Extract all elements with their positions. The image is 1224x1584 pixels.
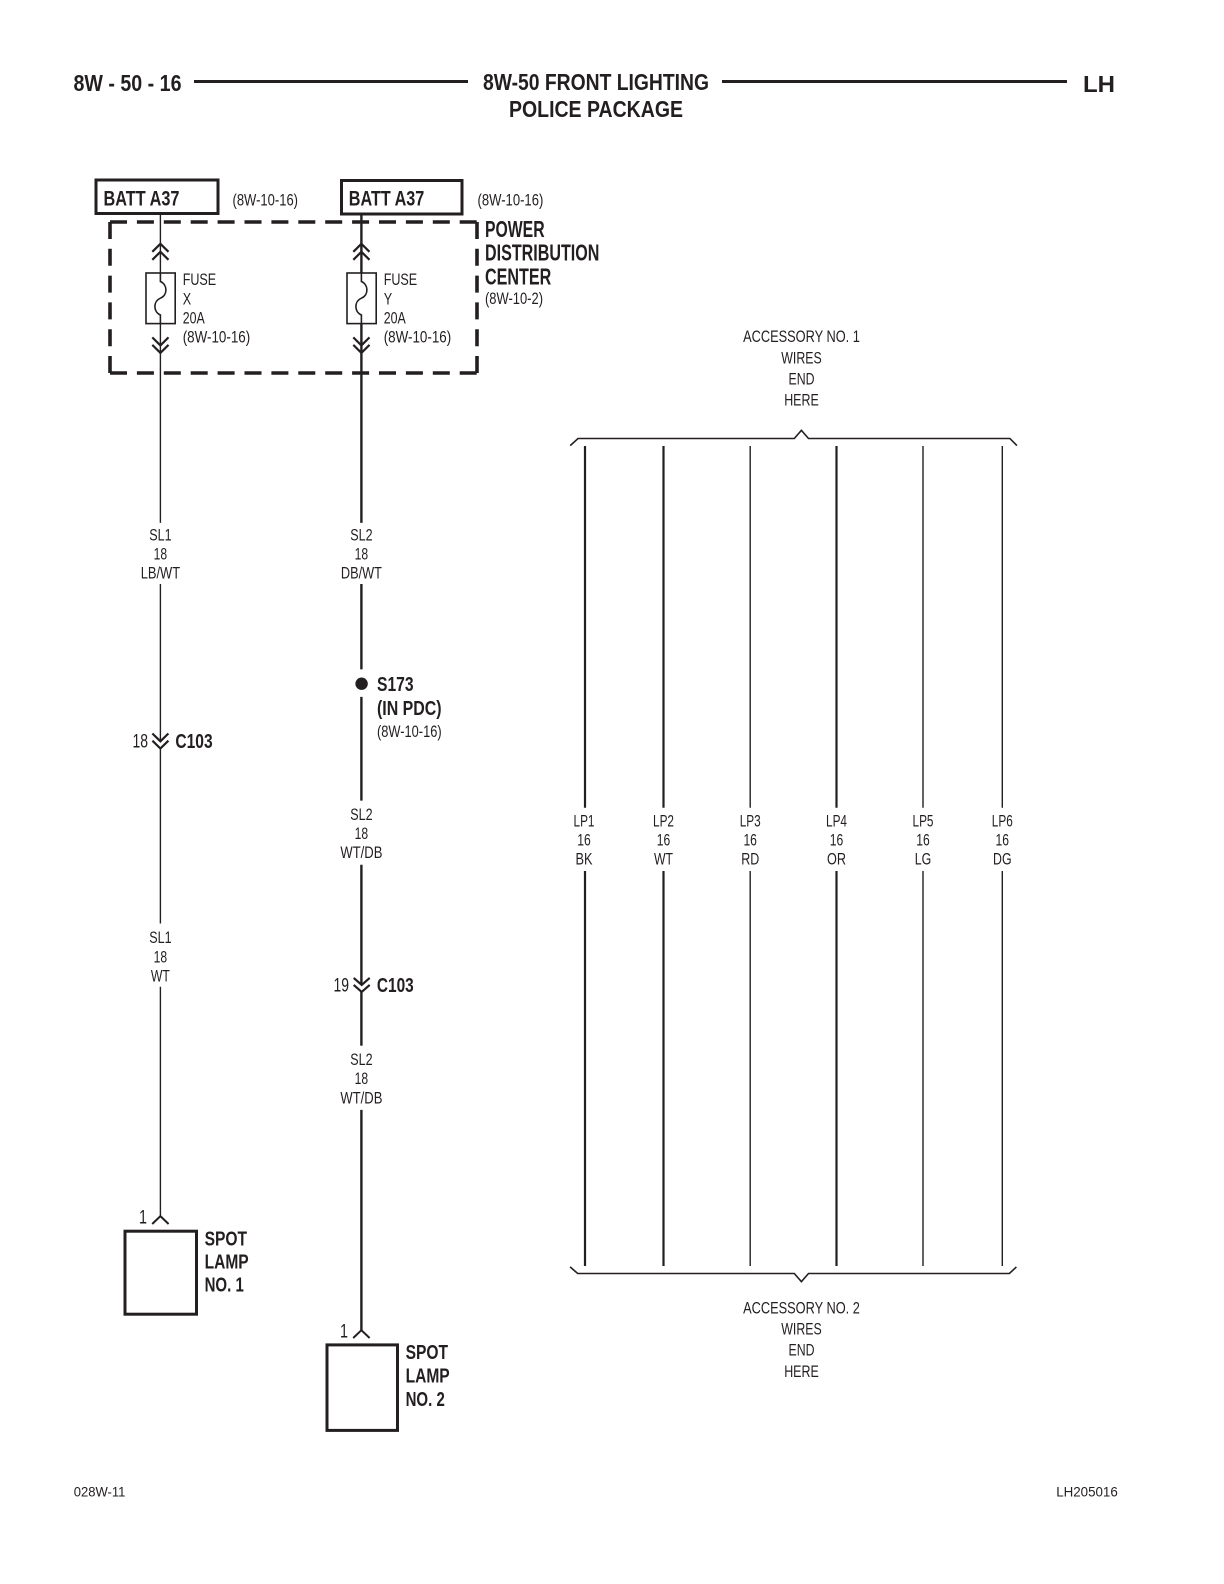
- wire label LP3 16 RD: [740, 812, 761, 869]
- svg-text:ACCESSORY NO. 2: ACCESSORY NO. 2: [743, 1298, 860, 1317]
- svg-text:WIRES: WIRES: [781, 348, 821, 367]
- svg-text:16: 16: [743, 831, 757, 850]
- component SPOT LAMP NO. 2: [327, 1342, 450, 1430]
- svg-text:16: 16: [830, 831, 844, 850]
- wire label SL2 18 WT/DB (lower): [340, 1050, 382, 1107]
- svg-text:LP6: LP6: [992, 812, 1013, 831]
- wire SL1 C103 to label gap: [159, 749, 161, 924]
- node BATT A37 (left): [96, 180, 218, 214]
- svg-text:LH205016: LH205016: [1056, 1484, 1118, 1500]
- svg-text:SL2: SL2: [350, 805, 372, 824]
- svg-text:18: 18: [154, 545, 168, 564]
- svg-text:028W-11: 028W-11: [74, 1484, 126, 1500]
- connector C103 pin 18 (in-line chevrons): [152, 734, 168, 749]
- svg-text:SL1: SL1: [149, 526, 171, 545]
- svg-text:DB/WT: DB/WT: [341, 563, 382, 582]
- svg-text:POLICE PACKAGE: POLICE PACKAGE: [509, 96, 683, 122]
- svg-text:18: 18: [355, 824, 369, 843]
- wire SL1 to spot lamp 1: [159, 987, 161, 1216]
- svg-text:CENTER: CENTER: [485, 263, 551, 289]
- wire SL2 C103 to label gap: [360, 992, 362, 1046]
- svg-text:(8W-10-16): (8W-10-16): [377, 722, 442, 741]
- header-left title: [74, 70, 182, 96]
- wire LP6: [1001, 446, 1003, 808]
- svg-text:WT: WT: [654, 849, 673, 868]
- svg-text:DG: DG: [993, 849, 1012, 868]
- wire LP2: [662, 446, 664, 808]
- fuse feed arrows (up chevrons) right: [353, 244, 369, 260]
- svg-text:18: 18: [355, 1069, 369, 1088]
- svg-text:WIRES: WIRES: [781, 1320, 821, 1339]
- header-right label LH: [1083, 71, 1115, 97]
- svg-text:HERE: HERE: [784, 391, 819, 410]
- wire LP3: [749, 446, 751, 808]
- wire LP1: [584, 446, 586, 808]
- svg-text:LB/WT: LB/WT: [141, 563, 180, 582]
- svg-text:19: 19: [334, 976, 350, 997]
- svg-text:POWER: POWER: [485, 216, 545, 242]
- svg-text:WT/DB: WT/DB: [340, 1088, 382, 1107]
- svg-text:18: 18: [154, 947, 168, 966]
- header center title: [483, 69, 709, 122]
- svg-text:C103: C103: [175, 731, 212, 753]
- spot lamp 2 pin 1 connector: [353, 1330, 369, 1338]
- svg-text:ACCESSORY NO. 1: ACCESSORY NO. 1: [743, 327, 860, 346]
- svg-text:LP1: LP1: [574, 812, 595, 831]
- svg-text:END: END: [789, 1341, 815, 1360]
- svg-text:LAMP: LAMP: [406, 1366, 450, 1388]
- wire SL1 label gap to C103: [159, 584, 161, 741]
- svg-text:(IN PDC): (IN PDC): [377, 698, 442, 720]
- svg-text:LP2: LP2: [653, 812, 674, 831]
- wire label SL1 18 WT: [149, 928, 171, 985]
- wire LP5: [922, 446, 924, 808]
- svg-text:8W-50 FRONT LIGHTING: 8W-50 FRONT LIGHTING: [483, 69, 709, 95]
- label POWER DISTRIBUTION CENTER: [485, 216, 599, 308]
- svg-text:WT/DB: WT/DB: [340, 843, 382, 862]
- bottom brace (accessory no. 2 group): [570, 1267, 1016, 1282]
- note ACCESSORY NO. 2 WIRES END HERE: [743, 1298, 860, 1381]
- wire label LP5 16 LG: [913, 812, 934, 869]
- svg-text:16: 16: [916, 831, 930, 850]
- svg-text:BATT A37: BATT A37: [349, 188, 425, 211]
- header rule left: [194, 80, 468, 83]
- svg-text:(8W-10-2): (8W-10-2): [485, 289, 543, 308]
- top brace (accessory no. 1 group): [570, 430, 1017, 445]
- svg-text:SPOT: SPOT: [205, 1228, 248, 1250]
- svg-text:X: X: [183, 289, 191, 308]
- svg-text:(8W-10-16): (8W-10-16): [183, 328, 251, 347]
- fuse Y output arrows (down chevrons): [353, 337, 369, 353]
- svg-text:18: 18: [133, 732, 149, 753]
- fuse feed arrows (up chevrons) left: [152, 244, 168, 260]
- svg-text:RD: RD: [741, 849, 759, 868]
- svg-text:LP5: LP5: [913, 812, 934, 831]
- wire SL2 splice to label gap: [360, 697, 362, 801]
- svg-text:LP4: LP4: [826, 812, 847, 831]
- fuse X body: [146, 273, 175, 324]
- wire label LP1 16 BK: [574, 812, 595, 869]
- header rule right: [722, 80, 1067, 83]
- svg-text:NO. 2: NO. 2: [406, 1389, 445, 1411]
- svg-text:1: 1: [340, 1322, 348, 1343]
- wire SL1 from BATT to fuse X: [159, 215, 161, 273]
- svg-text:WT: WT: [151, 967, 170, 986]
- svg-text:16: 16: [577, 831, 591, 850]
- fuse Y body: [347, 273, 376, 324]
- svg-text:(8W-10-16): (8W-10-16): [384, 328, 452, 347]
- wire SL1 fuse X to label gap: [159, 324, 161, 523]
- power distribution center dashed box: [110, 222, 477, 373]
- fuse X labels: [183, 270, 251, 347]
- svg-text:LAMP: LAMP: [205, 1251, 249, 1273]
- svg-text:S173: S173: [377, 674, 414, 696]
- svg-text:16: 16: [657, 831, 671, 850]
- svg-text:SL1: SL1: [149, 928, 171, 947]
- svg-text:SL2: SL2: [350, 526, 372, 545]
- svg-text:HERE: HERE: [784, 1362, 819, 1381]
- wire SL2 from BATT to fuse Y: [360, 216, 362, 274]
- svg-text:LP3: LP3: [740, 812, 761, 831]
- svg-text:LH: LH: [1083, 71, 1115, 97]
- spot lamp 1 pin 1 connector: [152, 1216, 168, 1224]
- svg-text:C103: C103: [377, 975, 414, 997]
- wire label SL1 18 LB/WT: [141, 526, 180, 583]
- svg-text:1: 1: [139, 1208, 147, 1229]
- svg-text:18: 18: [355, 545, 369, 564]
- fuse X output arrows (down chevrons): [152, 337, 168, 353]
- wire label SL2 18 WT/DB (upper): [340, 805, 382, 862]
- connector C103 pin 19 (in-line chevrons): [354, 978, 370, 992]
- svg-text:DISTRIBUTION: DISTRIBUTION: [485, 240, 599, 266]
- component SPOT LAMP NO. 1: [125, 1228, 249, 1314]
- wire label SL2 18 DB/WT: [341, 526, 382, 583]
- splice S173: [355, 674, 441, 741]
- svg-text:END: END: [789, 370, 815, 389]
- svg-text:LG: LG: [915, 849, 932, 868]
- wire label LP4 16 OR: [826, 812, 847, 869]
- svg-text:NO. 1: NO. 1: [205, 1274, 244, 1296]
- svg-text:OR: OR: [827, 849, 846, 868]
- svg-text:(8W-10-16): (8W-10-16): [233, 191, 299, 210]
- note ACCESSORY NO. 1 WIRES END HERE: [743, 327, 860, 410]
- svg-text:BK: BK: [576, 849, 593, 868]
- svg-text:8W - 50 - 16: 8W - 50 - 16: [74, 70, 182, 96]
- fuse Y labels: [384, 270, 452, 347]
- wire label LP6 16 DG: [992, 812, 1013, 869]
- wire LP4: [835, 446, 837, 808]
- wire SL2 to spot lamp 2: [360, 1110, 362, 1330]
- svg-text:BATT A37: BATT A37: [104, 188, 180, 211]
- svg-text:(8W-10-16): (8W-10-16): [478, 191, 544, 210]
- svg-text:16: 16: [996, 831, 1010, 850]
- svg-text:SPOT: SPOT: [406, 1342, 449, 1364]
- wire SL2 label gap to splice: [360, 584, 362, 669]
- svg-text:20A: 20A: [183, 308, 205, 327]
- svg-text:Y: Y: [384, 289, 392, 308]
- svg-text:FUSE: FUSE: [183, 270, 217, 289]
- wire SL2 fuse Y to label gap: [360, 324, 362, 523]
- svg-text:SL2: SL2: [350, 1050, 372, 1069]
- svg-text:FUSE: FUSE: [384, 270, 418, 289]
- svg-text:20A: 20A: [384, 308, 406, 327]
- wire SL2 label to C103: [360, 865, 362, 985]
- wire label LP2 16 WT: [653, 812, 674, 869]
- node BATT A37 (right): [342, 181, 463, 215]
